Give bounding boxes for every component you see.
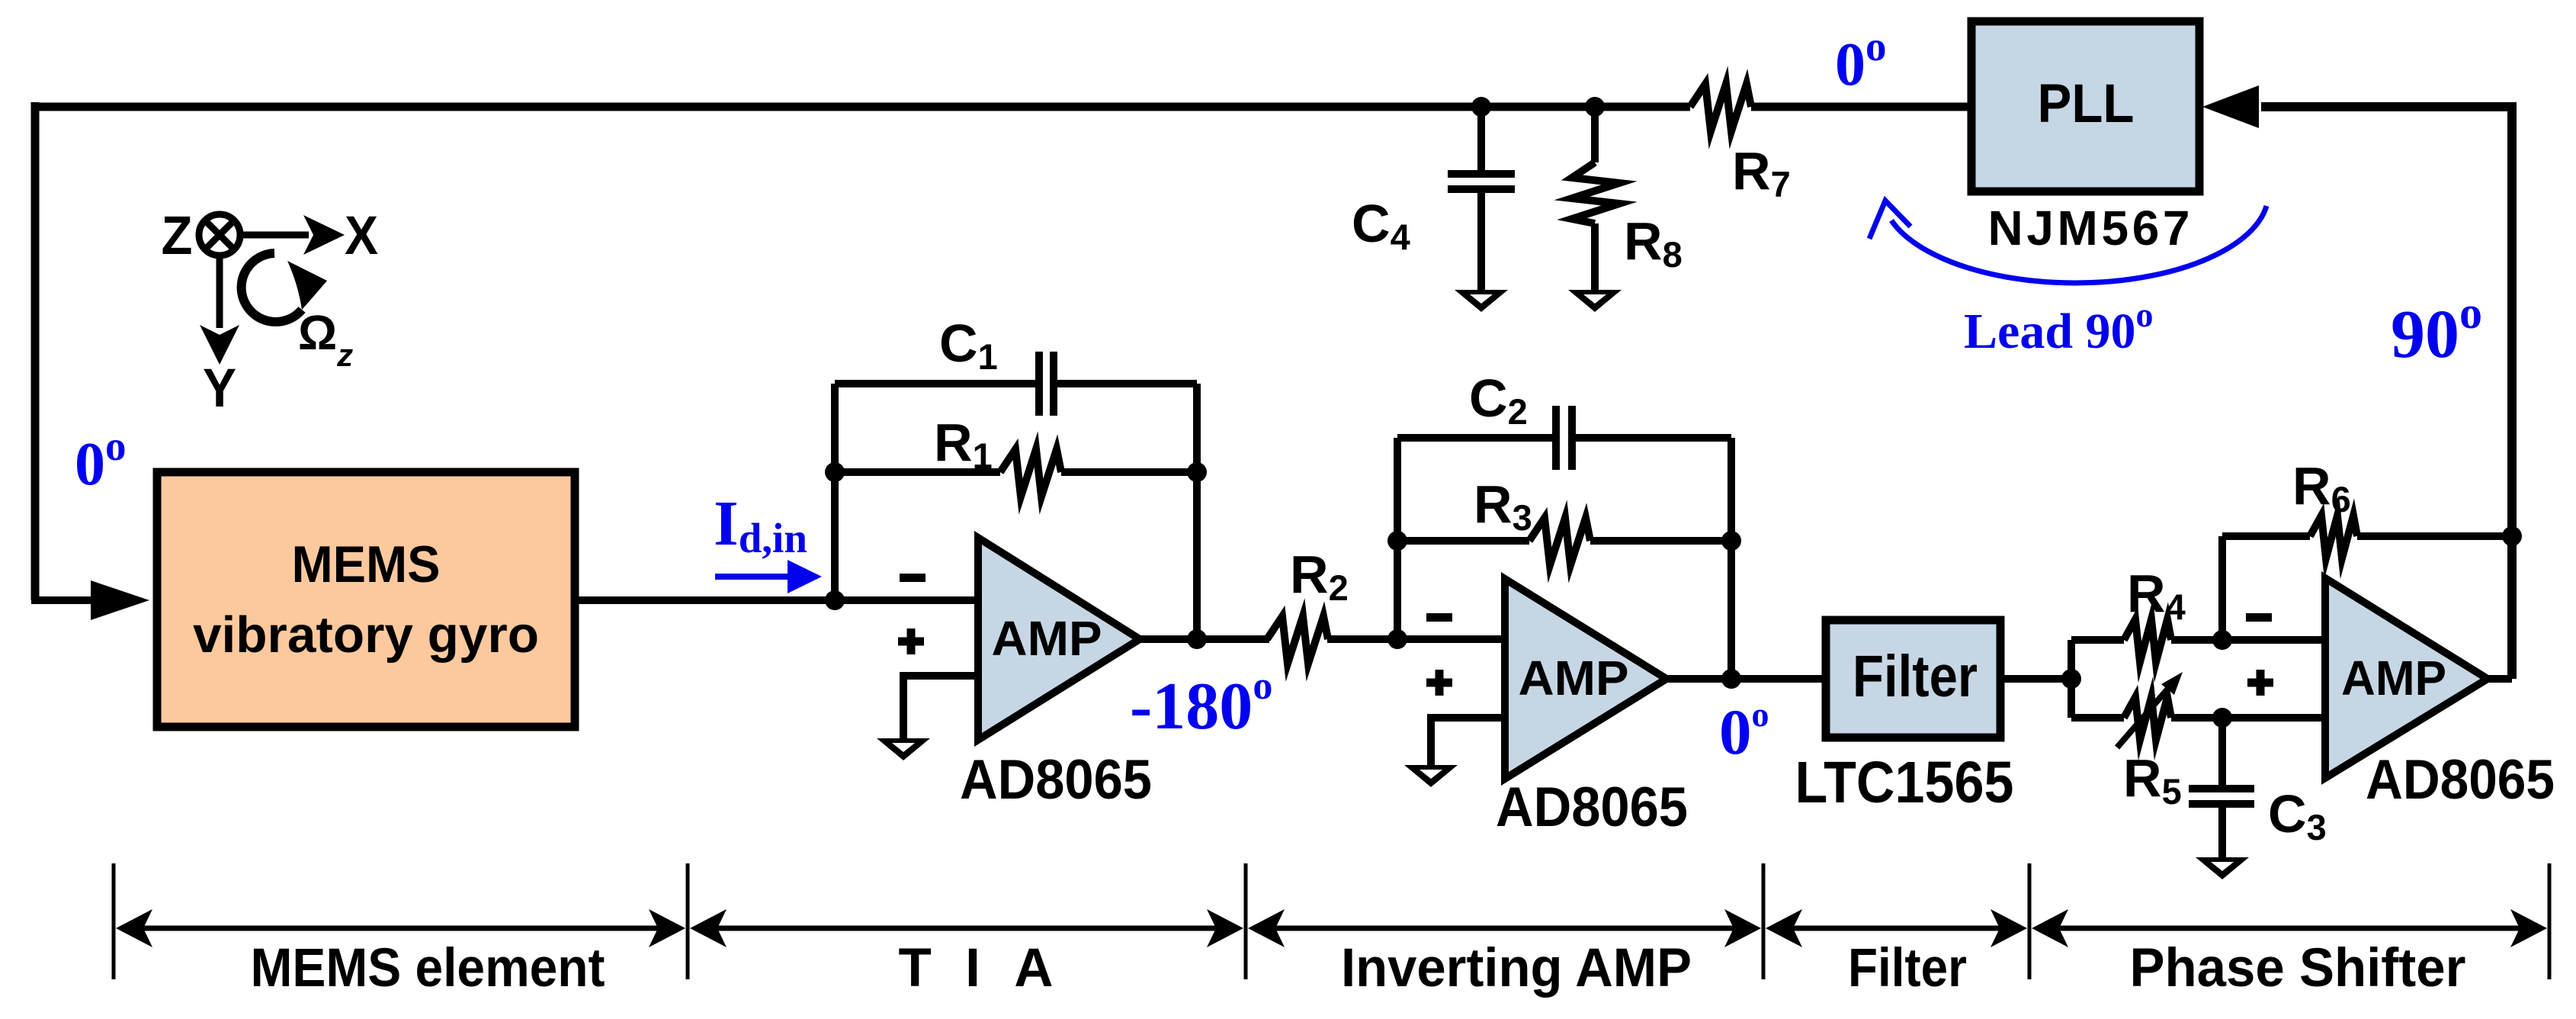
rotation arc omega — [242, 253, 302, 322]
dimension tick 5 — [2028, 863, 2032, 979]
dim arrow left 4 — [1766, 909, 1802, 947]
wire R8 top — [1591, 107, 1599, 162]
dim arrow right 5 — [2510, 909, 2547, 947]
axis X line — [240, 232, 309, 239]
svg-text:C3: C3 — [2268, 784, 2327, 847]
wire TIA feedback left vertical — [831, 384, 839, 600]
dimension tick 6 — [2548, 863, 2552, 979]
dimension line Phase Shifter — [2038, 926, 2541, 931]
dimension line Filter — [1772, 926, 2021, 931]
minus sign U2 — [1426, 613, 1452, 622]
dimension line MEMS element — [122, 926, 679, 931]
dim arrow left 3 — [1248, 909, 1285, 947]
svg-text:0o: 0o — [1835, 23, 1887, 98]
resistor R7 — [1690, 84, 1751, 131]
dim arrow left 1 — [116, 909, 152, 947]
node U2 output — [1721, 669, 1741, 689]
svg-text:90o: 90o — [2391, 288, 2482, 372]
plus sign U3 — [2247, 670, 2273, 696]
resistor R1 — [1000, 449, 1061, 497]
svg-text:Z: Z — [162, 206, 193, 266]
arrow of variable resistor R5 — [2117, 685, 2171, 747]
svg-text:R7: R7 — [1732, 141, 1791, 204]
svg-text:R3: R3 — [1474, 474, 1532, 538]
dimension tick 3 — [1244, 863, 1248, 979]
dim arrow right 1 — [649, 909, 685, 947]
resistor R6 — [2310, 516, 2357, 558]
op-amp U2 — [1505, 579, 1667, 779]
svg-text:C1: C1 — [939, 313, 998, 377]
node TIA inverting input — [825, 590, 845, 610]
wire R4 left — [2071, 636, 2124, 644]
dimension tick 4 — [1762, 863, 1766, 979]
capacitor C3 — [2189, 789, 2254, 804]
svg-text:Inverting AMP: Inverting AMP — [1341, 938, 1692, 998]
axis Z cross — [205, 220, 234, 249]
op-amp U3 — [2325, 578, 2488, 778]
axis Y line — [217, 256, 223, 328]
wire TIA feedback right vertical — [1193, 384, 1201, 639]
wire top left segment — [35, 103, 1690, 111]
resistor R4 — [2124, 619, 2171, 662]
blue arrowhead Id,in — [788, 560, 822, 593]
node U3 inverting — [2212, 630, 2232, 650]
resistor R8 — [1572, 162, 1619, 223]
wire inverting node to op-amp — [1397, 635, 1505, 643]
svg-text:PLL: PLL — [2038, 74, 2135, 134]
minus sign U1 — [900, 574, 925, 582]
capacitor C2 — [1556, 406, 1572, 470]
MEMS vibratory gyro box — [157, 472, 575, 727]
wire U3 output — [2488, 675, 2512, 683]
Filter box — [1826, 620, 2000, 738]
node R1 left — [825, 462, 845, 482]
svg-text:X: X — [345, 206, 378, 266]
plus sign U1 — [898, 628, 924, 654]
wire into MEMS — [31, 596, 99, 604]
wire U1 output — [1140, 635, 1269, 643]
wire U2 non-inverting input — [1431, 718, 1505, 765]
svg-text:Filter: Filter — [1853, 644, 1978, 709]
dim arrow right 3 — [1724, 909, 1761, 947]
svg-text:R4: R4 — [2127, 564, 2186, 627]
wire U3 inverting input — [2222, 636, 2325, 644]
resistor R2 — [1267, 616, 1328, 664]
svg-text:AD8065: AD8065 — [1496, 776, 1688, 838]
dimension line TIA — [696, 926, 1237, 931]
wire inv-amp feedback left vertical — [1394, 438, 1401, 639]
node inverting amp input — [1387, 629, 1407, 649]
node U3 non-inverting — [2212, 708, 2232, 728]
wire R5 right — [2171, 714, 2222, 722]
dimension line Inverting AMP — [1254, 926, 1755, 931]
node R3 left — [1387, 531, 1407, 551]
wire R3 left — [1397, 537, 1529, 545]
wire R6 left horizontal — [2222, 532, 2310, 540]
dimension tick 2 — [686, 863, 690, 979]
wire phase input branch vertical — [2068, 640, 2075, 718]
wire top feedback from PLL to left side — [1751, 103, 1971, 111]
wire R1 left — [835, 468, 1000, 476]
capacitor C4 — [1448, 174, 1515, 189]
svg-text:AMP: AMP — [992, 611, 1102, 666]
axis Y arrowhead — [200, 325, 239, 365]
resistor R3 — [1529, 518, 1590, 565]
svg-text:MEMS element: MEMS element — [251, 938, 605, 998]
wire C1 left — [835, 380, 1035, 387]
wire R6 right — [2357, 532, 2512, 540]
svg-text:Filter: Filter — [1848, 938, 1967, 998]
svg-text:C2: C2 — [1469, 368, 1528, 432]
svg-text:AMP: AMP — [1519, 651, 1629, 706]
svg-text:NJM567: NJM567 — [1988, 201, 2190, 256]
wire C3 top — [2218, 718, 2226, 785]
dim arrow left 2 — [690, 909, 727, 947]
svg-text:R6: R6 — [2292, 456, 2351, 519]
minus sign U3 — [2246, 613, 2272, 622]
wire U2 output — [1667, 675, 1826, 683]
svg-text:C4: C4 — [1352, 194, 1410, 257]
ground U2 — [1404, 765, 1458, 787]
rotation arrowhead omega — [287, 261, 327, 310]
node phase shifter input — [2061, 669, 2081, 689]
svg-text:-180o: -180o — [1130, 664, 1272, 744]
svg-text:Phase Shifter: Phase Shifter — [2130, 938, 2466, 998]
node R1 right — [1187, 462, 1207, 482]
wire right vertical 90deg feedback — [2261, 107, 2512, 679]
node R8 top — [1585, 97, 1605, 117]
wire R2 to inverting node — [1327, 635, 1397, 643]
resistor R5 variable — [2124, 697, 2171, 740]
wire U3 non-inverting input — [2222, 714, 2325, 722]
ground U1 — [877, 738, 930, 760]
svg-text:Lead 90o: Lead 90o — [1964, 295, 2154, 359]
svg-text:R8: R8 — [1624, 211, 1683, 275]
axis X arrowhead — [303, 215, 345, 255]
svg-text:Ωz: Ωz — [298, 305, 353, 373]
op-amp U1 — [978, 538, 1140, 740]
wire C2 right — [1576, 434, 1731, 442]
dim arrow right 4 — [1991, 909, 2027, 947]
svg-text:TIA: TIA — [899, 938, 1054, 998]
ground C4 — [1455, 290, 1508, 312]
arrowhead of R5 — [2161, 672, 2183, 695]
wire C4 bottom — [1477, 193, 1485, 290]
wire inv-amp feedback right vertical — [1727, 438, 1735, 679]
capacitor C1 — [1039, 352, 1054, 416]
blue arc Lead 90 — [1891, 206, 2266, 283]
dimension tick 1 — [112, 863, 116, 979]
wire C2 left — [1397, 434, 1552, 442]
svg-text:0o: 0o — [1719, 695, 1769, 768]
svg-text:Y: Y — [203, 358, 236, 419]
wire Filter output — [2000, 675, 2071, 683]
wire C1 right — [1057, 380, 1197, 387]
axis Z circle — [199, 214, 240, 256]
arrowhead into PLL — [2202, 85, 2259, 128]
node R6 right — [2502, 526, 2522, 546]
svg-text:Id,in: Id,in — [714, 488, 807, 561]
PLL box — [1971, 21, 2199, 191]
node C4 top — [1471, 97, 1491, 117]
svg-text:R5: R5 — [2123, 748, 2182, 812]
svg-text:R1: R1 — [934, 413, 993, 476]
wire C4 top — [1477, 107, 1485, 170]
arrowhead into MEMS — [91, 580, 149, 620]
dim arrow right 2 — [1207, 909, 1243, 947]
svg-text:AMP: AMP — [2341, 651, 2446, 706]
wire MEMS output — [575, 596, 835, 604]
ground C3 — [2196, 857, 2249, 879]
wire R5 left — [2071, 714, 2124, 722]
ground R8 — [1568, 290, 1622, 312]
svg-text:0o: 0o — [75, 423, 127, 498]
blue current arrow Id,in — [715, 574, 793, 580]
svg-text:LTC1565: LTC1565 — [1795, 750, 2014, 815]
wire left vertical — [31, 102, 40, 600]
blue arc arrowhead — [1869, 201, 1910, 239]
svg-text:AD8065: AD8065 — [2366, 749, 2555, 811]
wire C3 bottom — [2218, 808, 2226, 857]
plus sign U2 — [1426, 670, 1452, 696]
wire R4 right — [2171, 636, 2222, 644]
svg-text:AD8065: AD8065 — [960, 749, 1152, 811]
node U1 output — [1187, 629, 1207, 649]
wire TIA inverting input to op-amp — [835, 596, 978, 604]
wire R6 left vertical — [2218, 536, 2226, 640]
wire R8 bottom — [1591, 223, 1599, 290]
wire R1 right — [1061, 468, 1197, 476]
svg-text:vibratory gyro: vibratory gyro — [193, 606, 539, 664]
node R3 right — [1721, 531, 1741, 551]
svg-text:R2: R2 — [1290, 545, 1349, 608]
wire R3 right — [1590, 537, 1731, 545]
wire U1 non-inverting input — [903, 676, 978, 738]
svg-text:MEMS: MEMS — [292, 535, 441, 593]
dim arrow left 5 — [2032, 909, 2068, 947]
